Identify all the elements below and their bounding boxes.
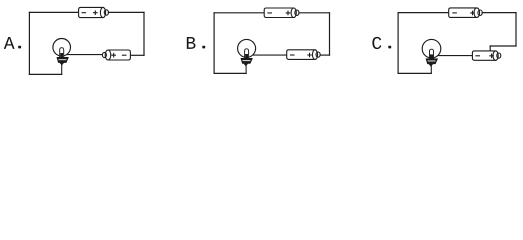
battery terminal nub xyxy=(478,10,482,15)
lamp C stem xyxy=(430,49,434,59)
lamp A base thread highlight xyxy=(59,59,67,60)
battery terminal nub xyxy=(104,10,108,15)
lamp C screw base xyxy=(426,59,438,66)
wire A left wall xyxy=(28,12,30,74)
wire B lamp to battery xyxy=(253,54,287,56)
label C xyxy=(372,37,381,49)
wire C step horizontal xyxy=(490,45,516,47)
wire C lamp bottom lead xyxy=(430,65,432,73)
lamp B screw base xyxy=(241,58,253,66)
lamp B base thread highlight xyxy=(243,60,251,61)
battery body xyxy=(287,50,315,60)
battery cell top of C xyxy=(449,8,483,18)
wire B top-left segment xyxy=(214,12,264,14)
battery terminal nub xyxy=(497,53,501,58)
wire A lamp bottom lead xyxy=(61,64,63,74)
lamp A stem dark fill xyxy=(60,53,63,58)
battery end cap xyxy=(105,50,111,60)
label A xyxy=(4,37,15,49)
wire B bottom-right segment xyxy=(320,54,329,56)
wire C bottom rail xyxy=(398,72,431,74)
lamp A bulb glass xyxy=(53,39,71,57)
plus sign xyxy=(286,11,291,16)
label B xyxy=(187,37,196,49)
minus sign xyxy=(267,12,272,14)
plus sign xyxy=(470,11,475,16)
wire C left wall xyxy=(397,13,399,74)
minus sign xyxy=(475,55,480,57)
battery end cap xyxy=(291,8,296,18)
battery body xyxy=(108,50,130,60)
wire C top-left segment xyxy=(398,12,449,14)
battery end cap xyxy=(100,7,105,17)
battery end cap xyxy=(474,8,480,18)
battery cell top of A xyxy=(79,7,109,17)
minus sign xyxy=(122,54,127,56)
wire B left wall xyxy=(213,13,215,74)
lamp A screw base xyxy=(57,57,69,65)
minus sign xyxy=(82,12,87,14)
wire A bottom-right segment xyxy=(130,54,144,56)
battery end cap xyxy=(312,50,317,60)
battery terminal nub xyxy=(295,10,299,15)
wire B right wall xyxy=(329,13,331,55)
battery cell bottom of B xyxy=(287,50,320,60)
wire B bottom rail xyxy=(214,72,246,74)
wire C lamp to battery xyxy=(438,55,473,57)
wire C right wall xyxy=(515,13,517,46)
battery cell top of B xyxy=(264,8,299,18)
lamp C stem dark fill xyxy=(430,54,433,59)
wire A top-right segment xyxy=(108,11,144,13)
wire A lamp to battery xyxy=(66,54,102,56)
wire C top-right segment xyxy=(482,12,516,14)
battery end cap xyxy=(493,51,498,60)
battery body xyxy=(79,7,103,17)
wire C step down to battery xyxy=(489,46,491,51)
wire B top-right segment xyxy=(299,12,330,14)
wire A top-left segment xyxy=(29,11,78,13)
lamp C bulb glass xyxy=(422,39,441,58)
plus sign xyxy=(93,10,98,15)
battery cell bottom of C xyxy=(472,51,500,60)
battery terminal nub xyxy=(316,52,320,57)
plus sign xyxy=(489,54,494,59)
lamp B bulb glass xyxy=(238,39,256,57)
minus sign xyxy=(452,12,457,14)
lamp A stem xyxy=(60,48,64,58)
lamp B stem xyxy=(245,49,249,59)
lamp B stem dark fill xyxy=(245,54,248,59)
wire B lamp bottom lead xyxy=(245,65,247,73)
wire A bottom rail xyxy=(29,73,61,75)
battery body xyxy=(472,51,495,60)
minus sign xyxy=(290,54,295,56)
wire A right wall xyxy=(143,12,145,55)
plus sign xyxy=(111,53,116,58)
battery cell bottom of A (nub left) xyxy=(102,50,130,60)
battery body xyxy=(449,8,477,18)
battery terminal nub xyxy=(102,52,106,57)
plus sign xyxy=(307,53,312,58)
lamp C base thread highlight xyxy=(428,60,436,61)
battery body xyxy=(264,8,294,18)
